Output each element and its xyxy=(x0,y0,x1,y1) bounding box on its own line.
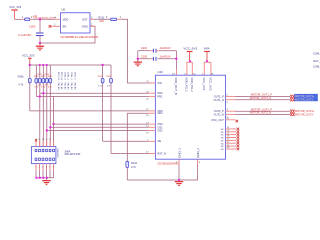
net labels column block xyxy=(57,72,76,90)
capacitor C205 xyxy=(138,57,177,61)
pin name OUT2_N xyxy=(214,112,224,116)
switch top pin stubs xyxy=(36,141,54,147)
wire GND return C203 to U6 GND xyxy=(40,26,95,43)
svg-text:VCC_3V3: VCC_3V3 xyxy=(9,5,21,9)
capacitor C203 xyxy=(36,33,44,43)
pin 2 GND stub xyxy=(90,23,95,26)
pin 1 EN stub with no-connect xyxy=(49,23,61,27)
svg-text:DW-NDT-04P: DW-NDT-04P xyxy=(65,152,81,156)
pin name OD1 xyxy=(157,111,163,115)
pin name OUT xyxy=(82,17,88,21)
wire S2 to pin 15 xyxy=(47,130,149,132)
svg-text:OUT1_P: OUT1_P xyxy=(214,94,224,98)
resistor R110 xyxy=(34,65,38,96)
svg-text:4.7k: 4.7k xyxy=(107,85,111,87)
svg-text:MOTOR_OUT1+: MOTOR_OUT1+ xyxy=(295,94,315,98)
svg-text:MOTOR_OUT2_N: MOTOR_OUT2_N xyxy=(250,111,271,115)
svg-text:SW_B0: SW_B0 xyxy=(57,82,59,90)
node VCC_3V3 above U40 xyxy=(183,46,197,50)
ground symbol below U40 xyxy=(175,181,183,186)
svg-text:C203: C203 xyxy=(29,24,36,28)
junction VCC rail left xyxy=(29,64,31,66)
svg-text:MOTOR_OUT1_P: MOTOR_OUT1_P xyxy=(251,93,272,97)
svg-text:OSC_OUT: OSC_OUT xyxy=(211,118,224,122)
svg-text:R102: R102 xyxy=(131,162,138,165)
resistor R113 xyxy=(45,65,49,147)
label C203 xyxy=(29,24,36,28)
label R102 xyxy=(131,162,138,169)
svg-text:R104: R104 xyxy=(98,76,103,78)
pin pair VPA bracket xyxy=(202,62,214,75)
junction caps left xyxy=(137,58,139,60)
svg-text:R112: R112 xyxy=(41,76,45,78)
svg-text:1: 1 xyxy=(35,167,36,169)
svg-text:4: 4 xyxy=(46,167,47,169)
svg-text:C205: C205 xyxy=(141,55,148,59)
svg-text:OSEL_1: OSEL_1 xyxy=(67,72,69,81)
svg-text:VCC_3V3: VCC_3V3 xyxy=(22,54,35,58)
label U40 xyxy=(157,70,163,74)
svg-text:OUT: OUT xyxy=(82,17,88,21)
svg-text:9: 9 xyxy=(46,139,47,141)
svg-text:OUT_C: OUT_C xyxy=(313,59,320,63)
top pin name VDDO vertical xyxy=(174,77,178,94)
svg-text:SW_B5: SW_B5 xyxy=(73,82,75,90)
highlighted label MOTOR_OUT1- xyxy=(294,98,318,102)
wire S1 to pin 14 xyxy=(50,126,148,128)
node VCC_3V3 resistor bank label xyxy=(22,54,35,58)
switch bottom pin stubs xyxy=(36,164,54,171)
svg-text:4.7k: 4.7k xyxy=(98,85,102,87)
junction C203 bottom xyxy=(39,42,41,44)
ground symbol below switch xyxy=(42,178,50,186)
pin 7 OE stub xyxy=(147,140,155,142)
label C203 value xyxy=(18,33,31,37)
svg-text:0.1uF/16V: 0.1uF/16V xyxy=(18,33,31,37)
svg-text:MOTOR_OUT2+: MOTOR_OUT2+ xyxy=(295,109,315,113)
svg-text:U40: U40 xyxy=(157,70,163,74)
power symbol VCC_3V3 above U40 xyxy=(187,51,193,61)
svg-text:NC: NC xyxy=(221,129,225,131)
bottom pin 4 GND stub xyxy=(176,159,179,164)
svg-text:PRG_S1: PRG_S1 xyxy=(60,72,62,81)
svg-text:SW_B4: SW_B4 xyxy=(70,82,72,90)
ground below caps xyxy=(134,59,142,67)
svg-text:VCC_AX2: VCC_AX2 xyxy=(209,77,213,91)
pin 21 XIN stub xyxy=(146,81,155,83)
wire power to L10 xyxy=(15,18,23,20)
svg-text:8: 8 xyxy=(49,139,50,141)
wire MOTOR_OUT1_P xyxy=(235,95,290,97)
resistor R105 pull RST xyxy=(106,65,112,154)
pin 3 OUT2_P stub xyxy=(226,109,236,111)
label U6 xyxy=(62,8,66,12)
ground below C203 xyxy=(36,43,44,51)
svg-text:22R: 22R xyxy=(99,20,104,23)
label L10 value xyxy=(33,15,56,20)
svg-text:4.7k: 4.7k xyxy=(131,166,136,169)
label U40 part number xyxy=(158,161,180,165)
pin name EN xyxy=(63,24,67,28)
svg-text:VDD: VDD xyxy=(63,17,69,21)
pin name GND xyxy=(82,24,88,28)
pin name OE xyxy=(157,139,161,143)
pin name VDD xyxy=(63,17,69,21)
pin name OUT1_N xyxy=(214,98,224,102)
svg-text:10uF/10V: 10uF/10V xyxy=(159,55,171,59)
no-connect mark switch pin 1 xyxy=(35,139,37,141)
svg-text:R110: R110 xyxy=(34,76,38,78)
svg-text:OUT1_N: OUT1_N xyxy=(214,98,224,102)
svg-text:6: 6 xyxy=(53,167,54,169)
svg-text:GND_2: GND_2 xyxy=(196,148,200,158)
svg-text:2: 2 xyxy=(39,167,40,169)
pin 4 VDD stub xyxy=(54,16,60,19)
svg-text:GND: GND xyxy=(82,24,88,28)
bottom pin names GND vertical xyxy=(177,148,200,158)
wire RST_N to pin 12 xyxy=(111,153,149,155)
svg-text:SW_B1: SW_B1 xyxy=(60,82,62,90)
svg-text:NC: NC xyxy=(221,149,225,151)
pin 25 PR1 stub xyxy=(146,96,155,100)
pin 13 S0 stub xyxy=(146,122,155,124)
svg-text:PR1: PR1 xyxy=(157,94,163,98)
svg-text:5: 5 xyxy=(49,167,50,169)
wire v6 to switch pin 6 xyxy=(53,96,55,146)
svg-text:NC: NC xyxy=(221,135,225,137)
switch top pin numbers xyxy=(35,139,54,141)
pin name S2 xyxy=(157,129,163,133)
NC pin names xyxy=(221,129,225,151)
highlighted label MOTOR_OUT1+ xyxy=(294,94,318,98)
junction PR1 wire xyxy=(39,95,41,97)
resistor R111 xyxy=(38,65,42,147)
label SW4 xyxy=(65,149,81,156)
label R106 xyxy=(18,75,25,86)
svg-text:MOTOR_OUT2-: MOTOR_OUT2- xyxy=(295,113,314,117)
wire R102 to ground rail xyxy=(127,179,179,181)
junction caps right xyxy=(175,58,177,60)
svg-text:NC: NC xyxy=(221,132,225,134)
junction VPA bracket xyxy=(206,60,208,62)
svg-text:OUT2_N: OUT2_N xyxy=(214,112,224,116)
svg-text:MOTOR_OUT1_N: MOTOR_OUT1_N xyxy=(250,96,271,100)
net label list top right 2 xyxy=(313,59,320,63)
pin 14 S1 stub xyxy=(146,126,155,128)
junction PR0 wire xyxy=(42,92,44,94)
label SW4 vertical xyxy=(56,148,58,158)
switch SW4 box xyxy=(31,147,56,164)
switch contacts row 1 xyxy=(35,149,54,151)
NC pin stubs with no-connect marks xyxy=(226,127,240,150)
pin 15 S2 stub xyxy=(146,131,155,135)
junction S2 wire xyxy=(46,129,48,131)
svg-text:NC: NC xyxy=(221,143,225,145)
svg-text:NC: NC xyxy=(221,138,225,140)
pin 11 OD0 stub xyxy=(146,109,155,111)
pin name OD0 xyxy=(157,109,163,113)
svg-text:RST_N: RST_N xyxy=(157,152,166,156)
wire MOTOR_OUT2_N xyxy=(235,113,290,115)
wire PR0 to pin 26 xyxy=(40,92,149,94)
pin name OSC_OUT xyxy=(211,118,224,122)
wire L10 to U6 VDD xyxy=(32,18,55,20)
svg-text:OS2: OS2 xyxy=(157,129,163,133)
junction dots on rail xyxy=(39,64,48,66)
svg-text:OSEL_0: OSEL_0 xyxy=(63,72,65,81)
svg-text:R106: R106 xyxy=(18,75,25,78)
net label list top right 3 xyxy=(313,64,320,68)
switch contacts row 2 xyxy=(35,158,54,160)
svg-text:VDD_OUT_B: VDD_OUT_B xyxy=(174,77,178,94)
power symbol VCC_3V3 top-left xyxy=(11,9,17,19)
net label list top right 1 xyxy=(313,52,320,56)
svg-text:ODIV_0: ODIV_0 xyxy=(73,72,75,80)
svg-text:4.7k: 4.7k xyxy=(41,86,45,88)
svg-text:VDD_PLL2: VDD_PLL2 xyxy=(190,77,194,92)
pin 10 OD1 stub xyxy=(146,113,155,117)
svg-text:U6: U6 xyxy=(62,8,66,12)
label C205 xyxy=(141,55,171,59)
offsheet chevron OUT2_P xyxy=(290,110,294,113)
junction node above C203 xyxy=(39,18,41,20)
svg-text:11: 11 xyxy=(38,139,40,141)
label MOTOR_OUT1_N xyxy=(250,96,271,100)
offsheet chevron OUT1_N xyxy=(290,98,294,101)
label MOTOR_OUT2- xyxy=(295,113,314,117)
pin name OUT1_P xyxy=(214,94,224,98)
svg-text:COM_C: COM_C xyxy=(313,52,320,56)
svg-text:MOTOR_OUT2_P: MOTOR_OUT2_P xyxy=(251,107,272,111)
label C204 xyxy=(141,46,171,50)
pin 23 OSC_OUT stub with no-connect xyxy=(226,118,239,123)
inductor L10 xyxy=(22,16,33,21)
oscillator U6 box xyxy=(61,13,91,33)
pin 2 OUT2_N stub xyxy=(226,114,236,118)
junction ground rail xyxy=(178,179,180,181)
svg-text:VCC_AX1: VCC_AX1 xyxy=(202,77,206,91)
svg-text:NC: NC xyxy=(221,146,225,148)
svg-text:VDD_PLL1: VDD_PLL1 xyxy=(185,77,189,92)
power symbol VCC_3V3 resistor bank xyxy=(28,58,32,65)
pin name XIN xyxy=(157,81,161,85)
junction dots switch ground rail xyxy=(35,177,48,179)
svg-text:OE: OE xyxy=(157,139,161,143)
pin 3 OUT stub xyxy=(90,16,93,19)
resistor R102 pulldown xyxy=(126,113,129,180)
pin 6 OUT1_P stub xyxy=(226,94,236,96)
resistor R104 pull OE xyxy=(98,65,104,141)
junction VCC bracket xyxy=(189,60,191,62)
pin name PR1 xyxy=(157,94,163,98)
label MOTOR_OUT2_N xyxy=(250,111,271,115)
label MOTOR_OUT1_P xyxy=(251,93,272,97)
wire OE to pin 7 xyxy=(103,140,149,142)
junction S0 wire xyxy=(52,123,54,125)
top pin number 19 xyxy=(172,74,175,76)
pin name S0 xyxy=(157,122,163,126)
wire caps left common xyxy=(137,51,139,62)
wires switch bottom to ground rail xyxy=(36,170,54,177)
resistor R112 xyxy=(41,65,45,147)
wire U6 OUT to R131 xyxy=(93,18,110,20)
svg-text:10: 10 xyxy=(42,139,44,141)
svg-text:GF18008B-21-33E-25.000000: GF18008B-21-33E-25.000000 xyxy=(60,35,98,39)
wire OD1 to pin 10 xyxy=(127,112,148,114)
wire MOTOR_OUT2_P xyxy=(235,110,290,112)
svg-text:4.7k: 4.7k xyxy=(18,84,23,87)
svg-text:VCC_3V3: VCC_3V3 xyxy=(183,46,197,50)
svg-text:EN: EN xyxy=(63,24,67,28)
svg-text:MOTOR_OUT1-: MOTOR_OUT1- xyxy=(295,98,314,102)
svg-text:VPA: VPA xyxy=(204,46,211,50)
svg-text:3: 3 xyxy=(42,167,43,169)
pin name RST_N xyxy=(157,152,166,156)
svg-text:4.7k: 4.7k xyxy=(34,86,38,88)
svg-text:R114: R114 xyxy=(48,76,52,78)
junction VCC rail at R104 xyxy=(101,64,103,66)
svg-text:PRG_S0: PRG_S0 xyxy=(57,72,59,81)
node VCC_3V3 top-left label xyxy=(9,5,21,9)
label MOTOR_OUT2_P xyxy=(251,107,272,111)
wire PR1 to pin 25 xyxy=(36,95,148,97)
svg-text:NC: NC xyxy=(221,141,225,143)
pin pair VDD bracket xyxy=(184,62,196,75)
top pin names VPA vertical pair xyxy=(202,77,213,91)
wire caps right common to U40 top pin xyxy=(175,51,177,75)
offsheet chevron OUT1_P xyxy=(290,95,294,98)
svg-text:GND_1: GND_1 xyxy=(177,148,181,158)
offsheet chevron OUT2_N xyxy=(290,113,294,116)
resistor R106 xyxy=(28,65,31,111)
IC U40 box xyxy=(155,75,225,159)
pin 5 OUT1_N stub xyxy=(226,100,236,104)
svg-text:SW-DIP6: SW-DIP6 xyxy=(56,148,58,158)
pin 12 RST_N stub xyxy=(146,152,155,154)
power symbol VPA xyxy=(204,51,210,61)
top pin names VDD vertical pair xyxy=(185,77,194,92)
label R131 xyxy=(98,16,105,23)
wire R106 to OD0 pin xyxy=(30,110,149,112)
wire GND pins to ground rail xyxy=(179,164,198,180)
node VPA above U40 xyxy=(204,46,211,50)
capacitor C204 xyxy=(138,49,177,53)
junction S1 wire xyxy=(49,126,51,128)
svg-text:SW_B2: SW_B2 xyxy=(63,82,65,90)
label MOTOR_OUT2+ xyxy=(295,109,315,113)
svg-text:XIN: XIN xyxy=(157,81,161,85)
svg-text:COM_D: COM_D xyxy=(313,64,320,68)
svg-text:OSEL_2: OSEL_2 xyxy=(70,72,72,81)
wire junction down to C203 xyxy=(39,19,41,33)
svg-text:7: 7 xyxy=(53,139,54,141)
wire VCC rail xyxy=(30,64,111,66)
svg-text:4.7k: 4.7k xyxy=(48,86,52,88)
pin 26 PR0 stub xyxy=(146,91,155,93)
switch bottom pin numbers xyxy=(35,167,54,169)
svg-text:OD1: OD1 xyxy=(157,111,163,115)
pin name PR0 xyxy=(157,91,163,95)
svg-text:R105: R105 xyxy=(106,76,111,78)
pin name S1 xyxy=(157,125,163,129)
pin name OUT2_P xyxy=(214,109,224,113)
wire MOTOR_OUT1_N xyxy=(235,99,290,101)
resistor R114 xyxy=(48,65,52,147)
bottom pin 8 GND stub xyxy=(198,159,201,164)
wire R131 to XIN xyxy=(121,19,153,83)
svg-text:10uF/10V: 10uF/10V xyxy=(159,46,171,50)
wire S0 to pin 13 xyxy=(54,123,149,125)
resistor R131 xyxy=(106,16,122,20)
svg-text:SW_B3: SW_B3 xyxy=(67,82,69,90)
svg-text:C204: C204 xyxy=(141,46,148,50)
label U6 part number xyxy=(60,35,98,39)
